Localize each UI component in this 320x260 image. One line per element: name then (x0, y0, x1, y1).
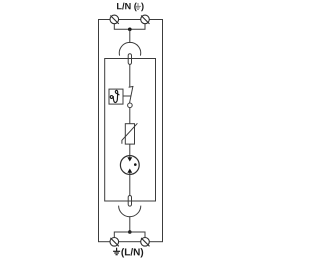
wire junction to plug socket (129, 29, 131, 43)
wire switch to varistor (129, 108, 131, 124)
plug-in connection bottom (module pin) (128, 196, 131, 207)
wire pin to disconnector (129, 64, 131, 86)
wire gas discharge tube to bottom pin (129, 174, 131, 195)
label L/N (earth) top (117, 3, 144, 12)
wire socket to bottom junction (129, 216, 131, 232)
varistor RV (metal oxide varistor) (122, 123, 137, 144)
gas discharge tube F (spark gap) (120, 156, 139, 175)
mechanical linkage thermal element to switch (123, 95, 131, 97)
wire bottom bus (114, 232, 145, 238)
earth symbol (gray, in parentheses of top label) (135, 3, 141, 9)
protection module outline (105, 59, 156, 202)
plug-in connection bottom (socket arc) (119, 206, 141, 217)
thermal element box (109, 89, 123, 104)
wire top bus (114, 24, 145, 30)
thermal disconnector switch (128, 86, 134, 107)
device enclosure outline (99, 20, 163, 242)
node top junction (128, 28, 132, 32)
earth symbol (bottom label) (113, 248, 120, 255)
terminal X1 (top left screw terminal) (110, 15, 119, 24)
terminal X3 (bottom left screw terminal) (110, 238, 119, 247)
node bottom junction (128, 230, 132, 234)
terminal X4 (bottom right screw terminal) (141, 238, 150, 247)
plug-in connection top (socket arc) (119, 42, 140, 55)
plug-in connection top (module pin) (128, 54, 131, 65)
wire varistor to gas discharge tube (129, 144, 131, 156)
thermal element symbol (theta) (110, 90, 119, 102)
label (L/N) bottom (121, 248, 143, 257)
terminal X2 (top right screw terminal) (141, 15, 150, 24)
